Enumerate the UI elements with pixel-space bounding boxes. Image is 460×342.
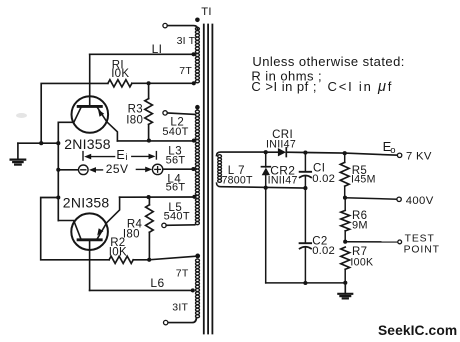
terminal Eo	[397, 153, 401, 157]
node R1/R3 junction dot	[147, 81, 151, 85]
label CR2 1N1147	[268, 174, 298, 186]
svg-text:I80: I80	[123, 228, 140, 240]
terminal 400V	[397, 197, 401, 201]
label R4	[123, 219, 143, 241]
label L6	[150, 276, 164, 290]
terminal winding W1 top	[163, 23, 167, 27]
label R6 9M	[352, 219, 368, 231]
node ground junction dot	[343, 281, 347, 285]
svg-text:0.02: 0.02	[312, 173, 335, 185]
node C2 bottom dot	[303, 281, 307, 285]
resistor R5	[340, 153, 349, 198]
node C1 bottom dot	[303, 186, 307, 190]
svg-text:I80: I80	[126, 114, 143, 126]
label R7	[352, 246, 367, 258]
transistor Q1 2N1358	[58, 54, 117, 141]
node R3 bottom dot	[147, 139, 151, 143]
label L1	[152, 42, 163, 56]
label L4	[167, 173, 181, 185]
node center tap dot	[191, 167, 195, 171]
label R2	[109, 237, 127, 258]
svg-text:Unless otherwise stated:: Unless otherwise stated:	[252, 54, 404, 69]
node L2/L3 tap dot	[192, 139, 196, 143]
wire L6 Q2 base to tap	[90, 289, 193, 291]
svg-text:7 KV: 7 KV	[406, 150, 432, 162]
wire CR2 to bottom rail	[265, 188, 267, 283]
wire W3 bottom terminal	[168, 318, 197, 323]
label 7KV	[406, 150, 432, 162]
label Eo	[383, 139, 396, 156]
wire L5 bottom terminal	[166, 224, 195, 227]
dimension Ei left tick and arrow	[83, 152, 115, 161]
ground output	[338, 283, 352, 299]
label CR2	[270, 163, 295, 177]
label Q1 2N1358	[64, 136, 111, 152]
label 31T top	[177, 35, 196, 47]
winding W3 coil	[196, 259, 200, 318]
wire R1 left leg	[41, 83, 108, 143]
diode CR2 1N1147	[262, 152, 271, 188]
node phase dot W3	[195, 254, 200, 259]
svg-text:400V: 400V	[406, 195, 434, 207]
arrow to E+ terminal	[136, 167, 152, 173]
label 7800T	[222, 174, 253, 186]
label C2	[312, 235, 328, 247]
arrow to E- terminal	[89, 167, 103, 173]
label 7T top	[179, 65, 192, 77]
node R6/R7 dot	[343, 240, 347, 244]
label R7 100K	[350, 256, 373, 268]
label L7	[228, 165, 245, 177]
diode CR1 1N1147	[278, 148, 286, 157]
watermark SeekIC.com	[378, 323, 457, 338]
wire R2 left leg	[41, 198, 109, 260]
resistor R4	[146, 197, 154, 260]
node phase dot W2	[195, 105, 200, 110]
svg-text:25V: 25V	[106, 162, 129, 176]
label POINT	[404, 244, 440, 255]
label R3	[126, 104, 143, 127]
label TEST	[405, 233, 435, 244]
winding W1 coil	[195, 27, 199, 83]
wire W1 top terminal	[167, 26, 197, 30]
svg-text:56T: 56T	[166, 154, 186, 166]
wire L7 top	[217, 152, 266, 156]
winding W2 coil	[195, 110, 199, 225]
capacitor C2	[300, 188, 312, 283]
wire Q2 emitter to winding tap	[120, 196, 195, 198]
node W1 bottom tap dot	[192, 81, 196, 85]
resistor R2	[109, 256, 133, 263]
wire E+ to center tap	[163, 168, 193, 170]
node CR2 bottom dot	[264, 186, 268, 190]
svg-text:540T: 540T	[164, 211, 190, 223]
terminal winding L5 bottom	[162, 223, 166, 227]
label L3	[168, 146, 182, 158]
svg-text:I00K: I00K	[350, 256, 373, 268]
wire bottom rail	[266, 282, 346, 284]
label Ei	[116, 148, 127, 163]
node R5/R6 dot	[343, 196, 347, 200]
terminal test point	[398, 240, 402, 244]
label 31T bottom	[172, 302, 188, 314]
label 540T L2	[162, 126, 188, 138]
label R5	[352, 165, 367, 177]
svg-text:3I T: 3I T	[177, 35, 196, 47]
wire L2 top terminal	[167, 113, 194, 114]
svg-text:o: o	[390, 145, 395, 156]
winding L7 coil	[218, 155, 222, 183]
label R1	[111, 60, 129, 80]
label 25V	[106, 162, 129, 176]
wire test point	[345, 241, 398, 243]
svg-text:I0K: I0K	[111, 68, 129, 80]
transformer T1 core	[204, 25, 213, 334]
label C1 0.02	[312, 173, 335, 185]
wire left rail	[57, 122, 59, 220]
svg-text:C<I in μf: C<I in μf	[328, 79, 394, 95]
node L4/L5 tap dot	[192, 195, 196, 199]
label R5 145M	[351, 174, 376, 186]
label L2	[170, 117, 184, 129]
terminal winding L2 top	[163, 111, 167, 115]
label R6	[352, 210, 367, 222]
svg-text:540T: 540T	[162, 126, 188, 138]
label CR1 1N1147	[266, 139, 296, 151]
label CR1	[272, 129, 293, 141]
node L1 tap dot	[192, 52, 196, 56]
note line 3	[251, 79, 393, 95]
label L5	[168, 202, 182, 214]
node R5 top dot	[343, 151, 347, 155]
node CR2 top dot	[264, 150, 268, 154]
ground	[11, 143, 26, 164]
svg-text:i: i	[125, 152, 127, 163]
wire Q1 emitter to winding tap	[117, 140, 194, 142]
label 56T L3	[166, 154, 186, 166]
svg-text:POINT: POINT	[404, 244, 440, 255]
label 400V	[406, 195, 434, 207]
svg-text:INII47: INII47	[266, 139, 296, 151]
terminal E+ circle	[152, 164, 162, 174]
svg-text:2NI358: 2NI358	[64, 136, 111, 152]
label 540T L5	[164, 211, 190, 223]
resistor R3	[145, 83, 153, 141]
svg-text:9M: 9M	[352, 219, 368, 231]
svg-text:3IT: 3IT	[172, 302, 188, 314]
wire 400V	[345, 198, 397, 199]
wire ground to rail	[18, 142, 58, 144]
svg-text:7800T: 7800T	[222, 174, 253, 186]
svg-text:2NI358: 2NI358	[63, 195, 110, 211]
wire L1 base to tap	[90, 53, 193, 55]
node phase dot W1	[195, 18, 200, 23]
transistor Q2 2N1358	[58, 197, 119, 290]
note line 1	[252, 54, 404, 69]
wire CR1 anode	[266, 151, 278, 153]
node R4 top dot	[147, 195, 151, 199]
svg-text:0.02: 0.02	[312, 245, 335, 257]
svg-text:SeekIC.com: SeekIC.com	[378, 323, 457, 338]
svg-text:I0K: I0K	[109, 246, 127, 258]
svg-text:L6: L6	[150, 276, 164, 290]
label C1	[313, 163, 325, 175]
svg-text:TEST: TEST	[405, 233, 435, 244]
node junction ground-R1 dot	[39, 141, 43, 145]
node rail-Ei dot	[56, 168, 60, 172]
terminal E- circle	[79, 165, 89, 175]
label C2 0.02	[312, 245, 335, 257]
wire L7 bottom	[217, 183, 306, 188]
resistor R7	[341, 247, 350, 283]
svg-text:C >I in pf ;: C >I in pf ;	[251, 79, 317, 94]
svg-text:TI: TI	[201, 6, 212, 18]
svg-text:7T: 7T	[176, 268, 189, 280]
svg-text:E: E	[116, 148, 124, 162]
terminal winding W3 bottom	[164, 320, 168, 324]
node rail-R2 dot	[56, 195, 60, 199]
svg-text:I45M: I45M	[351, 174, 376, 186]
label 56T L4	[166, 181, 186, 193]
capacitor C1	[300, 153, 311, 189]
dimension Ei right arrow and tick	[132, 152, 157, 160]
svg-text:LI: LI	[152, 42, 163, 56]
wire R1 to winding tap	[132, 82, 194, 84]
resistor R6	[341, 198, 350, 242]
svg-text:INII47: INII47	[268, 174, 298, 186]
resistor R1	[108, 80, 132, 87]
node C1 top dot	[303, 151, 307, 155]
wire top HV rail	[286, 152, 397, 155]
label 7T bottom	[176, 268, 189, 280]
svg-text:7T: 7T	[179, 65, 192, 77]
wire rail to minus terminal	[58, 169, 78, 171]
note line 2	[251, 68, 322, 83]
node rail-ground dot	[56, 141, 60, 145]
label T1	[201, 6, 212, 18]
wire R2 right	[133, 259, 149, 261]
label Q2 2N1358	[63, 195, 110, 211]
svg-text:56T: 56T	[166, 181, 186, 193]
node L6 tap dot	[191, 288, 195, 292]
node R2/R4 junction dot	[147, 258, 151, 262]
wire to winding W3 top	[149, 256, 195, 260]
